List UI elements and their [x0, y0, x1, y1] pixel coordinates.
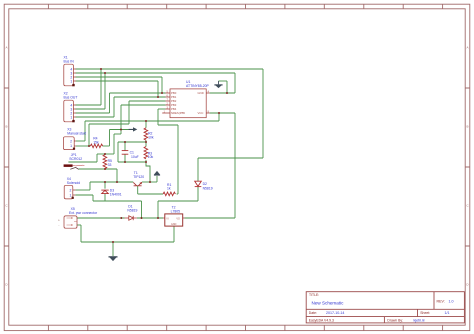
junction D3 top	[104, 181, 106, 183]
wire bus raw V row to D2	[198, 157, 263, 159]
junction R4 left	[88, 145, 90, 147]
wire PB3 jog drop	[113, 134, 115, 154]
svg-text:Bus OUT: Bus OUT	[64, 96, 78, 100]
wire ground rail	[81, 241, 174, 243]
connector X1 Bus IN	[64, 64, 76, 86]
junction R3 bottom	[145, 161, 147, 163]
svg-text:NRES(PB5: NRES(PB5	[171, 111, 185, 115]
svg-text:GND: GND	[198, 91, 204, 95]
wire T1 base row left	[90, 181, 133, 183]
junction row4/X2.4	[100, 68, 102, 70]
diode D2	[195, 181, 202, 186]
wire PB2 riser	[128, 101, 130, 124]
wire X5 pin3 stub	[77, 224, 81, 226]
svg-text:B: B	[466, 125, 468, 129]
diode D1	[125, 216, 137, 220]
wire PB1 row	[114, 96, 166, 98]
junction C1 top	[124, 141, 126, 143]
pin numbers X3	[70, 139, 72, 148]
wire PB0 row	[110, 92, 166, 94]
svg-text:-: -	[58, 223, 59, 227]
wire row1 drop to PB1	[157, 81, 159, 97]
svg-text:A: A	[5, 46, 7, 50]
wire PB2 lower row to X3 column	[89, 123, 129, 125]
capacitor C1	[122, 151, 129, 155]
wire X4 pin2 riser	[89, 182, 91, 190]
wire bus row3 GND X1.3	[76, 72, 236, 74]
svg-text:TITLE:: TITLE:	[309, 293, 319, 297]
svg-text:L7805: L7805	[171, 209, 181, 213]
resistor R3	[144, 147, 148, 159]
svg-text:1.0: 1.0	[449, 300, 454, 304]
wire X2.1 row	[76, 116, 115, 118]
wire R2 row drop to C1 bottom row	[117, 142, 119, 162]
svg-text:TIP120: TIP120	[133, 175, 144, 179]
junction VCC pin branch	[218, 112, 220, 114]
wire R2 bottom stem	[145, 140, 147, 146]
svg-text:10uF: 10uF	[131, 155, 139, 159]
regulator T2 L7805	[163, 214, 185, 226]
wire JP1 upper riser	[96, 154, 98, 162]
svg-text:kjetil.nl: kjetil.nl	[414, 318, 425, 322]
resistor R2	[144, 128, 148, 140]
wire VCC branch drop	[218, 113, 220, 121]
pin numbers X4	[70, 188, 72, 197]
wire bus row4 X1.4 to right column	[76, 68, 264, 70]
frame column ticks top	[48, 4, 442, 9]
wire X4 pin2 row	[75, 189, 90, 191]
wire X2.4 riser	[100, 69, 102, 105]
wire T1 emitter stem	[137, 186, 139, 194]
wire X4 pin1 lower row	[93, 200, 142, 202]
wire X5 pin3 drop	[80, 225, 82, 242]
diode D3	[101, 190, 108, 194]
svg-text:REV:: REV:	[437, 300, 445, 304]
svg-text:1N4001: 1N4001	[110, 193, 122, 197]
svg-text:GND: GND	[171, 223, 177, 226]
svg-text:Drawn By:: Drawn By:	[387, 318, 403, 322]
wire VCC drop to X3 pin2	[84, 121, 86, 141]
wire X2.3 row	[76, 108, 106, 110]
wire PB3 branch to R4 right	[109, 130, 111, 147]
wire bus row1 X1.1	[76, 80, 159, 82]
wire C1 bottom stem	[124, 154, 126, 162]
junction D1 anode	[120, 217, 122, 219]
svg-text:A: A	[466, 46, 468, 50]
wire D2 drop to 7805 input	[157, 201, 159, 218]
svg-text:Manual start: Manual start	[67, 131, 86, 135]
svg-text:10k: 10k	[148, 135, 154, 139]
resistor R5	[103, 155, 107, 169]
wire GND row3 drop to IC GND	[234, 73, 236, 93]
wire D2 top stem	[197, 158, 199, 181]
wire IC GND pin to row3 drop	[210, 92, 235, 94]
svg-text:ATTINY85-20P: ATTINY85-20P	[186, 84, 209, 88]
svg-text:2017-10-14: 2017-10-14	[326, 311, 344, 315]
junction GND flag	[226, 92, 228, 94]
wire row2 drop to PB0	[161, 77, 163, 93]
wire X2.3 riser	[104, 73, 106, 109]
junction row3/X2.3	[104, 72, 106, 74]
junction row1/PB1	[157, 96, 159, 98]
junction R5 branch	[116, 181, 118, 183]
svg-text:2: 2	[70, 139, 72, 143]
wire ground flag branch drop	[226, 81, 228, 93]
svg-text:VCC: VCC	[198, 111, 204, 115]
wire X3 pin1 to R4	[76, 145, 91, 147]
svg-text:B: B	[5, 125, 7, 129]
wire R5 bottom row	[79, 168, 117, 170]
wire ground flag branch horizontal	[219, 80, 228, 82]
svg-text:10k: 10k	[148, 155, 154, 159]
svg-text:C1: C1	[130, 151, 134, 155]
frame row ticks left	[4, 88, 9, 246]
pin numbers X1	[70, 67, 72, 83]
title block	[306, 292, 464, 323]
wire R2 top stem	[145, 121, 147, 128]
jumper JP1	[64, 164, 85, 169]
svg-text:1: 1	[70, 144, 72, 148]
svg-text:Ext. pwr connector: Ext. pwr connector	[69, 211, 98, 215]
svg-text:VO: VO	[176, 217, 180, 220]
svg-text:New Schematic: New Schematic	[312, 301, 345, 306]
ground flag top	[214, 81, 222, 88]
junction collector row	[149, 181, 151, 183]
svg-text:Date:: Date:	[309, 311, 317, 315]
wire bus row2 X1.2	[76, 76, 163, 78]
wire arrow flag stem	[156, 176, 158, 182]
wire X4 pin1 drop	[92, 195, 94, 201]
junction PB3 cross	[120, 129, 122, 131]
wire D1 cathode row to 7805	[137, 217, 163, 219]
wire PB3 arrow row	[110, 129, 130, 131]
wire C1 bottom row	[118, 161, 146, 163]
wire PB3 jog row	[114, 133, 121, 135]
frame row ticks right	[465, 88, 470, 246]
svg-text:1: 1	[70, 115, 72, 119]
IC pin names	[171, 91, 204, 115]
wire VCC column down to 7805 output	[234, 113, 236, 218]
wire PB4 middle row	[158, 124, 178, 126]
wire R1 right lead	[177, 193, 178, 195]
wire IC VCC pin to VCC column	[210, 112, 235, 114]
wire X2.2 riser to PB0	[109, 93, 111, 113]
svg-text:15k: 15k	[93, 140, 99, 144]
junction VCC/R2	[145, 120, 147, 122]
wire PB2 drop to X3 pin1	[88, 124, 90, 146]
IC pin numbers	[164, 90, 210, 113]
frame column ticks bottom	[48, 325, 442, 330]
wire PB4 row	[158, 108, 166, 110]
connector X3 Manual start	[63, 137, 75, 150]
junction D1 cathode	[141, 217, 143, 219]
wire R2 bottom row	[118, 141, 146, 143]
wire X5 pin1 row to D1	[77, 217, 125, 219]
svg-text:2: 2	[70, 188, 72, 192]
svg-text:33: 33	[108, 163, 112, 167]
svg-text:Solenoid: Solenoid	[67, 181, 80, 185]
wire VCC row	[85, 120, 219, 122]
junction 7805 input	[157, 217, 159, 219]
wire PB3 row	[121, 104, 166, 106]
op IC U1 ATTINY85	[162, 89, 209, 118]
wire R5 top row from JP1	[97, 153, 105, 155]
svg-text:1/1: 1/1	[445, 311, 450, 315]
ground flag bottom	[109, 256, 118, 261]
connector X5 Ext pwr	[64, 216, 77, 228]
wire D3 bottom stem	[104, 194, 106, 201]
svg-text:1: 1	[70, 79, 72, 83]
wire X2.1 riser to PB1	[113, 97, 115, 117]
wire D2 bottom row	[158, 200, 198, 202]
svg-text:VI: VI	[166, 217, 169, 220]
wire 7805 output row	[185, 217, 236, 219]
svg-text:1: 1	[70, 193, 72, 197]
right arrow flag	[129, 127, 138, 131]
connector X4 Solenoid	[64, 185, 75, 199]
wire X2.2 row	[76, 112, 110, 114]
junction R5 top	[104, 153, 106, 155]
resistor R4	[90, 144, 102, 148]
wire D2 bottom stem	[197, 187, 199, 201]
junction ground rail	[112, 241, 114, 243]
wire X3 pin2 row	[76, 140, 85, 142]
wire ground symbol stem	[112, 242, 114, 256]
wire JP1 upper row	[68, 161, 97, 163]
wire R5 top net row	[105, 153, 114, 155]
wire X4 pin1 row	[75, 194, 93, 196]
wire R5 branch drop to base row	[116, 169, 118, 182]
svg-text:Sheet:: Sheet:	[420, 311, 430, 315]
svg-text:1k: 1k	[167, 187, 171, 191]
svg-text:N5819: N5819	[203, 186, 213, 190]
transistor T1 TIP120	[133, 182, 142, 186]
wire PB3 riser	[120, 105, 122, 134]
wire drop to D1 cathode node	[141, 201, 143, 218]
wire PB2 row	[129, 100, 166, 102]
wire X2.4 row	[76, 104, 102, 106]
svg-text:N5819: N5819	[127, 208, 137, 212]
junction R2/R3	[145, 141, 147, 143]
wire T1 emitter row to R1	[138, 193, 163, 195]
wire 7805 gnd stem	[173, 226, 175, 242]
junction R5 bottom	[104, 168, 106, 170]
T2 pin names	[166, 217, 180, 226]
wire C1 top stem	[124, 142, 126, 151]
wire D3 top stem	[104, 182, 106, 189]
svg-text:Bus IN: Bus IN	[64, 60, 75, 64]
wire T1 collector row right	[142, 181, 157, 183]
wire R4 right lead to riser	[103, 145, 110, 147]
up arrow flag	[154, 171, 160, 176]
wire R3 bottom jog	[146, 160, 150, 182]
wire bus column down right side	[262, 69, 264, 158]
wire PB4 riser	[157, 109, 159, 125]
svg-text:EasyEDA V4.9.3: EasyEDA V4.9.3	[309, 318, 334, 322]
resistor R1	[163, 192, 175, 196]
junction C1 bottom	[124, 161, 126, 163]
junction row2/PB0	[161, 92, 163, 94]
wire PB4 drop to R1	[177, 125, 179, 194]
svg-text:SCR012: SCR012	[69, 157, 82, 161]
connector X2 Bus OUT	[64, 100, 76, 122]
pin numbers X2	[70, 103, 72, 119]
